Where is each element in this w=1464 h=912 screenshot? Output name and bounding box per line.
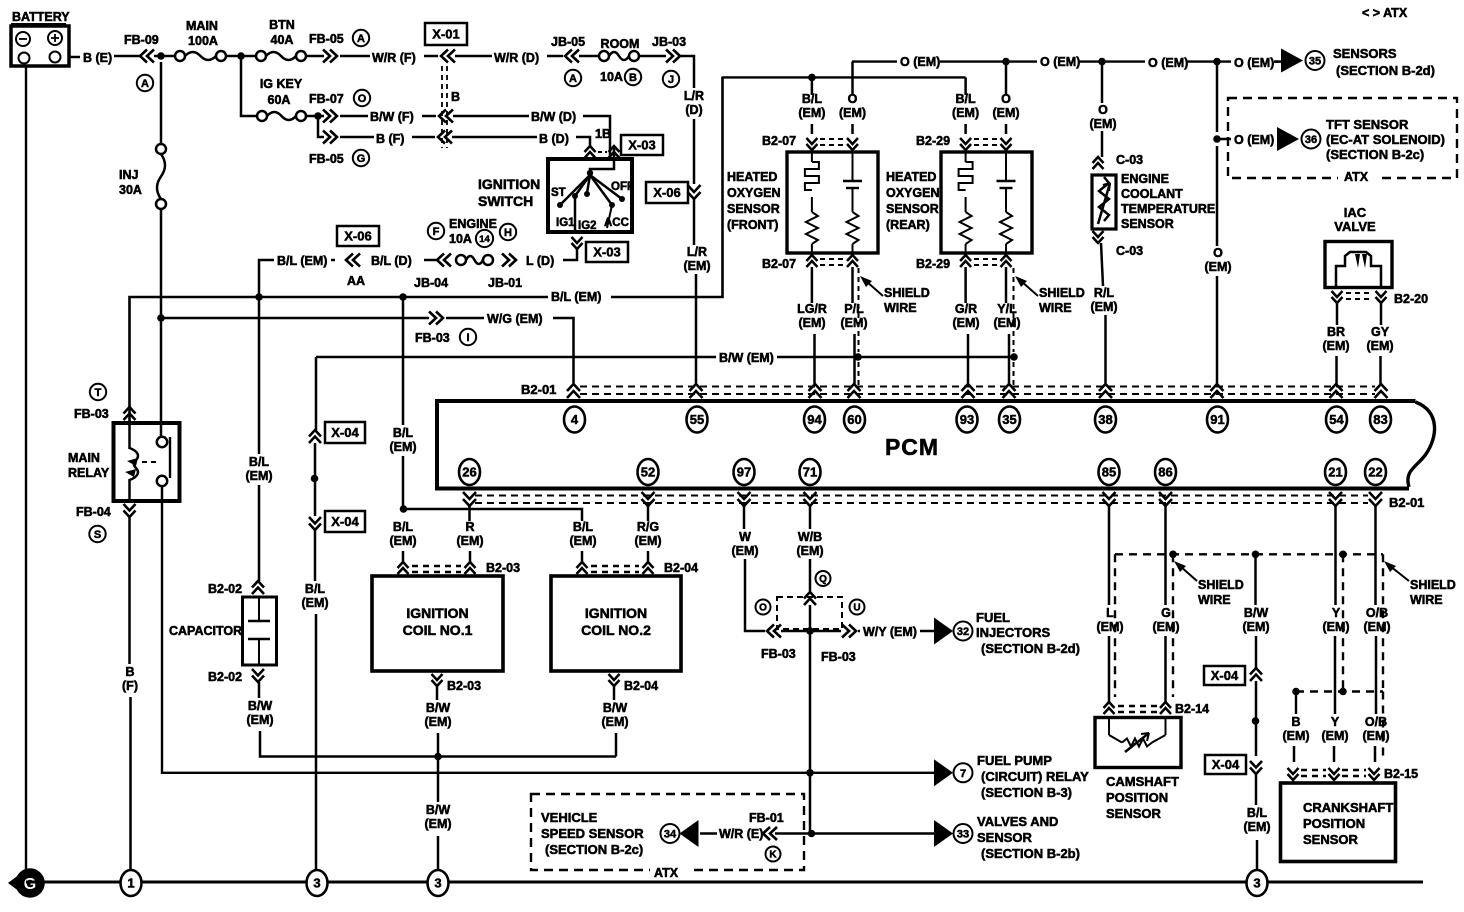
svg-text:CAPACITOR: CAPACITOR <box>169 624 242 638</box>
PCM pin 91 <box>1207 407 1228 433</box>
svg-text:B2-03: B2-03 <box>447 679 481 693</box>
svg-text:(EM): (EM) <box>601 715 628 729</box>
svg-text:(SECTION B-3): (SECTION B-3) <box>981 785 1072 800</box>
svg-text:FUEL PUMP: FUEL PUMP <box>977 753 1052 768</box>
svg-text:B/W (F): B/W (F) <box>370 110 414 124</box>
connector FB-03 right <box>821 625 856 665</box>
svg-text:35: 35 <box>1309 55 1321 67</box>
svg-text:(EM): (EM) <box>798 106 825 120</box>
IAC solenoid symbol <box>1336 252 1381 287</box>
svg-text:3: 3 <box>434 876 441 891</box>
svg-text:33: 33 <box>957 828 969 840</box>
wire to B(D) <box>452 136 537 139</box>
wire coil2 B/W <box>601 686 628 757</box>
junction battery feed <box>157 52 165 60</box>
svg-text:(EM): (EM) <box>798 316 825 330</box>
arrow 34 vss <box>661 820 699 847</box>
wire Y to crank <box>1333 746 1336 762</box>
svg-text:JB-05: JB-05 <box>551 35 585 49</box>
svg-text:B2-01: B2-01 <box>1389 495 1424 510</box>
PCM pin 38 <box>1095 407 1116 433</box>
HO2S front box <box>787 152 878 253</box>
wire O(EM) to ECT <box>1089 62 1116 157</box>
svg-text:(SECTION B-2c): (SECTION B-2c) <box>1326 147 1424 162</box>
svg-text:O: O <box>358 93 367 105</box>
svg-text:O (EM): O (EM) <box>1234 56 1274 70</box>
wire O(EM) to sensors arrow <box>1274 60 1281 63</box>
svg-text:SHIELD: SHIELD <box>884 286 930 300</box>
wire W/G to PCM pin 4 <box>553 318 574 384</box>
PCM pin 52 <box>638 459 659 485</box>
svg-text:U: U <box>853 603 860 614</box>
connector JB-05 <box>551 35 585 86</box>
wire BTN to FB-05 <box>306 55 324 58</box>
PCM bottom pin arrow <box>1329 492 1342 506</box>
label VEHICLE SPEED SENSOR <box>541 810 644 857</box>
PCM pin 54 <box>1326 407 1347 433</box>
fuse INJ 30A <box>119 144 166 209</box>
label IAC VALVE <box>1334 205 1376 234</box>
svg-text:W/R (F): W/R (F) <box>372 51 416 65</box>
svg-text:(EM): (EM) <box>952 316 979 330</box>
svg-text:SENSOR: SENSOR <box>977 830 1033 845</box>
svg-text:IG KEY: IG KEY <box>260 77 303 91</box>
svg-text:94: 94 <box>807 412 822 427</box>
svg-text:INJ: INJ <box>119 168 139 182</box>
wire W/R(D) to JB-05 <box>547 55 563 58</box>
svg-text:MAIN: MAIN <box>186 19 218 33</box>
svg-text:(SECTION B-2c): (SECTION B-2c) <box>545 842 643 857</box>
svg-text:O/B: O/B <box>1366 606 1388 620</box>
svg-text:71: 71 <box>803 465 817 480</box>
svg-text:O: O <box>1213 246 1223 260</box>
svg-text:(EM): (EM) <box>1204 260 1231 274</box>
PCM top pin arrow <box>848 384 861 398</box>
svg-text:IGNITION: IGNITION <box>585 605 647 621</box>
svg-text:(EM): (EM) <box>389 440 416 454</box>
arrow 33 valves <box>934 820 973 847</box>
wire B/L(D) to AA <box>424 259 437 262</box>
connector B2-20 <box>1332 291 1429 306</box>
svg-text:Y: Y <box>1332 606 1341 620</box>
wire to B/L label <box>1255 774 1258 805</box>
crank shield dashed <box>1296 554 1383 760</box>
svg-text:OXYGEN: OXYGEN <box>727 186 781 200</box>
svg-text:SWITCH: SWITCH <box>478 193 533 209</box>
dashed link X-01 <box>442 66 447 148</box>
svg-text:O: O <box>848 92 858 106</box>
svg-text:O (EM): O (EM) <box>1148 56 1188 70</box>
PCM bottom pin arrow <box>1159 492 1172 506</box>
svg-text:10A: 10A <box>600 70 623 84</box>
wire X-03 to L(D) corner <box>563 249 577 260</box>
wire coil B/L branch <box>403 509 582 521</box>
junction shield BW <box>1252 551 1260 559</box>
svg-text:G: G <box>24 876 36 893</box>
ground node 3b <box>428 870 449 896</box>
label B (F) bottom <box>122 665 138 693</box>
svg-text:RELAY: RELAY <box>68 466 110 480</box>
wire battery negative <box>25 66 27 870</box>
svg-text:HEATED: HEATED <box>727 170 777 184</box>
svg-text:B2-01: B2-01 <box>521 382 556 397</box>
svg-text:B2-04: B2-04 <box>624 679 658 693</box>
svg-text:(EM): (EM) <box>796 544 823 558</box>
main relay box <box>114 423 180 501</box>
HO2S rear sense element <box>997 152 1016 253</box>
connector FB-03 I <box>415 312 476 346</box>
circled U <box>850 600 865 615</box>
svg-text:J: J <box>668 74 674 86</box>
HO2S front heater element <box>805 152 819 253</box>
camshaft sensor element <box>1109 718 1166 753</box>
label SENSORS SECTION B-2d <box>1333 46 1435 78</box>
svg-text:(EM): (EM) <box>1282 729 1309 743</box>
svg-text:(EM): (EM) <box>634 534 661 548</box>
arrow 36 TFT <box>1277 127 1321 151</box>
PCM pin 86 <box>1155 459 1176 485</box>
svg-text:W/B: W/B <box>798 530 822 544</box>
PCM bottom pin arrow <box>642 492 655 506</box>
wire relay coil to B(F) <box>128 517 131 664</box>
PCM pin 93 <box>957 407 978 433</box>
svg-text:B/L (EM): B/L (EM) <box>551 290 601 304</box>
ignition coil no.2 box <box>551 576 681 671</box>
svg-text:B: B <box>1291 715 1300 729</box>
label B/L (EM) coil1 <box>389 520 416 548</box>
wire B/W(D) to ignition switch <box>583 116 610 160</box>
svg-text:X-06: X-06 <box>653 185 680 200</box>
svg-text:(EM): (EM) <box>731 544 758 558</box>
svg-text:TFT SENSOR: TFT SENSOR <box>1326 117 1409 132</box>
svg-text:O (EM): O (EM) <box>1234 133 1274 147</box>
wire B/L heater bus <box>722 76 966 78</box>
svg-text:HEATED: HEATED <box>886 170 936 184</box>
PCM top pin arrow <box>1003 384 1016 398</box>
junction shield2 to B/W <box>1010 353 1018 361</box>
wire X-04 riser <box>315 357 318 430</box>
HO2S front O wire <box>839 62 866 134</box>
wire B/L x403 down <box>402 297 405 425</box>
svg-text:SENSOR: SENSOR <box>1106 806 1162 821</box>
wire B/W row right segment <box>777 356 1014 359</box>
svg-text:X-04: X-04 <box>331 514 359 529</box>
relay contact <box>142 437 170 486</box>
PCM pin 83 <box>1370 407 1391 433</box>
wire to W/G label <box>446 317 484 320</box>
wire B/W pin into switch <box>613 146 616 166</box>
svg-text:POSITION: POSITION <box>1303 816 1365 831</box>
wire FB-09 to MAIN fuse <box>154 55 175 58</box>
svg-text:35: 35 <box>1002 412 1016 427</box>
connector FB-07 O <box>309 90 370 123</box>
capacitor box <box>243 597 277 665</box>
svg-text:Q: Q <box>819 574 827 585</box>
HO2S rear heater element <box>959 152 973 253</box>
PCM pin 55 <box>687 407 708 433</box>
svg-text:(EM): (EM) <box>683 259 710 273</box>
PCM pin 22 <box>1365 459 1386 485</box>
PCM top pin arrow <box>1375 384 1388 398</box>
wire B/L x403 to junction <box>402 456 405 509</box>
PCM top pin arrow <box>1099 384 1112 398</box>
svg-text:INJECTORS: INJECTORS <box>976 625 1050 640</box>
connector B2-29 bottom <box>916 255 1012 271</box>
svg-text:(EM): (EM) <box>1322 339 1349 353</box>
ECT sensor box <box>1092 175 1116 229</box>
svg-text:IAC: IAC <box>1344 205 1367 220</box>
svg-text:(CIRCUIT) RELAY: (CIRCUIT) RELAY <box>981 769 1089 784</box>
svg-text:(SECTION B-2b): (SECTION B-2b) <box>981 846 1080 861</box>
svg-text:(EM): (EM) <box>840 316 867 330</box>
wire MAIN to BTN <box>226 55 256 58</box>
connector B2-15 <box>1288 767 1419 781</box>
svg-text:22: 22 <box>1368 465 1382 480</box>
svg-text:B/L: B/L <box>305 582 326 596</box>
label Y (EM) crank <box>1321 715 1348 743</box>
PCM pin 26 <box>459 459 480 485</box>
arrow 35 sensors <box>1281 49 1325 73</box>
PCM pin 97 <box>734 459 755 485</box>
svg-text:POSITION: POSITION <box>1106 790 1168 805</box>
svg-text:O: O <box>1098 103 1108 117</box>
label FUEL PUMP CIRCUIT RELAY <box>977 753 1089 800</box>
svg-text:G/R: G/R <box>955 302 977 316</box>
junction O bus ECT <box>1098 58 1106 66</box>
HO2S front B/L wire <box>798 77 825 134</box>
svg-text:FB-07: FB-07 <box>309 92 344 106</box>
svg-text:26: 26 <box>462 465 476 480</box>
capacitor symbol <box>248 597 270 665</box>
svg-text:B2-03: B2-03 <box>486 561 520 575</box>
svg-text:52: 52 <box>641 465 655 480</box>
svg-text:W/R (D): W/R (D) <box>494 51 539 65</box>
svg-text:JB-04: JB-04 <box>414 276 448 290</box>
connector X-03 bottom <box>572 237 629 262</box>
svg-text:L: L <box>1106 606 1114 620</box>
svg-text:85: 85 <box>1102 465 1116 480</box>
svg-text:91: 91 <box>1210 412 1224 427</box>
connector FB-09 <box>124 33 159 63</box>
wire O(EM) to PCM 91 <box>1216 146 1219 246</box>
connector X-03 top pins <box>585 127 664 158</box>
svg-text:SENSOR: SENSOR <box>886 202 939 216</box>
svg-text:IG1: IG1 <box>556 217 575 229</box>
junction crank shield Y <box>1339 688 1347 696</box>
svg-text:B2-14: B2-14 <box>1175 702 1209 716</box>
svg-text:B/L: B/L <box>393 426 414 440</box>
connector FB-03 left <box>761 625 796 662</box>
connector X-01 row3 <box>438 131 452 144</box>
fuse IG KEY 60A <box>257 77 306 121</box>
wire between X-04s <box>314 443 317 516</box>
connector X-04 upper <box>309 422 365 443</box>
battery <box>11 10 70 66</box>
wire O to pin 91 lower <box>1216 276 1219 384</box>
svg-text:FB-05: FB-05 <box>309 152 344 166</box>
svg-text:B: B <box>125 665 134 679</box>
svg-text:(EM): (EM) <box>952 106 979 120</box>
wire B/W(EM) shield ground row <box>316 356 716 359</box>
svg-text:B (E): B (E) <box>83 51 112 65</box>
svg-text:B/W (EM): B/W (EM) <box>719 351 774 365</box>
connector B2-02 bottom <box>208 669 264 684</box>
wire G(EM) pin86 <box>1152 506 1179 702</box>
svg-text:X-04: X-04 <box>1211 668 1239 683</box>
ground symbol G <box>8 870 44 897</box>
svg-text:W/R (E): W/R (E) <box>719 827 763 841</box>
svg-text:VALVE: VALVE <box>1334 219 1376 234</box>
svg-text:SHIELD: SHIELD <box>1410 578 1456 592</box>
wire relay contact down <box>161 486 164 501</box>
box X-01 <box>425 23 467 45</box>
wire valves row <box>775 832 934 835</box>
svg-text:(EM): (EM) <box>1321 729 1348 743</box>
wire into coil2 left pin <box>581 551 584 562</box>
svg-text:60: 60 <box>847 412 861 427</box>
svg-text:(EM): (EM) <box>1366 339 1393 353</box>
svg-text:FB-03: FB-03 <box>821 650 856 664</box>
svg-text:B: B <box>629 72 637 84</box>
wire B(D) to switch connector <box>576 137 590 146</box>
ground node 3c <box>1247 870 1268 896</box>
connector B2-03 top <box>398 561 521 575</box>
PCM bottom pin arrow <box>463 492 476 506</box>
connector X-01 row1 <box>441 50 455 63</box>
label B/L (EM) x403 <box>389 426 416 454</box>
svg-text:AA: AA <box>347 274 365 288</box>
svg-text:BTN: BTN <box>269 18 295 32</box>
svg-text:K: K <box>769 850 777 861</box>
svg-text:W: W <box>739 530 751 544</box>
wire B(EM) crank <box>1282 692 1309 763</box>
svg-text:LG/R: LG/R <box>797 302 827 316</box>
svg-text:B/L: B/L <box>573 520 594 534</box>
svg-text:SPEED SENSOR: SPEED SENSOR <box>541 826 644 841</box>
wire B/L x259 down <box>258 297 261 454</box>
junction TFT tap <box>1213 135 1221 143</box>
wire W(EM) pin97 <box>731 506 765 631</box>
ground node 3a <box>307 870 328 896</box>
svg-text:14: 14 <box>479 234 490 245</box>
svg-text:B (D): B (D) <box>539 132 569 146</box>
connector FB-03 relay <box>74 407 136 421</box>
vehicle speed sensor dashed box <box>531 794 804 880</box>
svg-text:B/L: B/L <box>956 92 977 106</box>
junction shield G <box>1169 551 1177 559</box>
wire to FB-09 <box>114 55 142 58</box>
connector pin71 chevron <box>804 592 816 605</box>
wire to W/R(F) <box>340 55 370 58</box>
svg-text:(EM): (EM) <box>1362 729 1389 743</box>
svg-text:38: 38 <box>1098 412 1112 427</box>
svg-text:B/W: B/W <box>248 699 273 713</box>
wire coil1 B/W <box>424 686 451 756</box>
ATX dashed small box <box>777 597 842 629</box>
svg-text:IG2: IG2 <box>578 220 597 232</box>
svg-text:R/G: R/G <box>637 520 659 534</box>
svg-text:FB-03: FB-03 <box>415 331 450 345</box>
svg-text:ENGINE: ENGINE <box>449 217 497 231</box>
svg-text:CAMSHAFT: CAMSHAFT <box>1106 774 1179 789</box>
HO2S front sense element <box>843 152 862 253</box>
svg-text:VALVES AND: VALVES AND <box>977 814 1058 829</box>
wire R/G pin52 to coil2 <box>634 506 661 562</box>
svg-text:(EM): (EM) <box>1363 620 1390 634</box>
svg-text:C-03: C-03 <box>1116 244 1143 258</box>
svg-text:FB-09: FB-09 <box>124 33 159 47</box>
svg-text:B (F): B (F) <box>376 132 404 146</box>
label O (EM) x1217 <box>1204 246 1231 274</box>
HO2S rear box <box>941 152 1032 253</box>
svg-text:I: I <box>466 332 469 344</box>
PCM top pin arrow <box>809 384 822 398</box>
wire to ground 3c <box>1256 840 1259 869</box>
circled O <box>756 600 771 615</box>
box X-06 left <box>337 226 379 246</box>
wire W/G row left <box>161 317 429 320</box>
label HEATED OXYGEN SENSOR FRONT <box>727 170 781 232</box>
svg-text:(EM): (EM) <box>1096 620 1123 634</box>
PCM top pin arrow <box>1211 384 1224 398</box>
svg-text:7: 7 <box>960 768 966 780</box>
svg-text:(EM): (EM) <box>424 715 451 729</box>
wire injector junction down <box>809 631 812 834</box>
wire W/Y to arrow 32 <box>920 630 934 633</box>
svg-text:L/R: L/R <box>687 245 707 259</box>
svg-text:FB-03: FB-03 <box>74 407 109 421</box>
label TFT SENSOR EC-AT SOLENOID <box>1326 117 1445 162</box>
svg-text:CRANKSHAFT: CRANKSHAFT <box>1303 800 1393 815</box>
svg-text:21: 21 <box>1328 465 1342 480</box>
label IGNITION COIL NO.1 <box>403 605 473 638</box>
svg-text:B: B <box>451 90 460 104</box>
svg-text:FB-04: FB-04 <box>76 505 111 519</box>
svg-text:1B: 1B <box>595 127 611 141</box>
svg-text:X-04: X-04 <box>331 425 359 440</box>
ignition switch box <box>548 159 632 232</box>
wire battery B(E) <box>69 56 80 59</box>
svg-text:R/L: R/L <box>1094 286 1115 300</box>
svg-text:(SECTION B-2d): (SECTION B-2d) <box>981 641 1080 656</box>
PCM bottom pin arrow <box>804 492 817 506</box>
PCM top connector band B2-01 <box>521 382 1375 397</box>
label FUEL INJECTORS SECTION B-2d <box>976 610 1080 656</box>
connector JB-01 arrow <box>488 254 522 291</box>
svg-text:B/W: B/W <box>426 803 451 817</box>
svg-text:OXYGEN: OXYGEN <box>886 186 940 200</box>
junction crank shield B <box>1292 688 1300 696</box>
PCM top pin arrow <box>1330 384 1343 398</box>
svg-text:(EM): (EM) <box>1089 117 1116 131</box>
connector JB-04 arrow <box>414 254 451 291</box>
wire into coil1 left pin <box>402 551 405 562</box>
wire ROOM to JB-03 <box>639 55 666 58</box>
svg-text:COIL NO.2: COIL NO.2 <box>581 622 651 638</box>
junction coil ground <box>434 753 442 761</box>
ECT thermistor symbol <box>1098 177 1110 224</box>
connector B2-14 <box>1104 702 1210 716</box>
svg-text:(EM): (EM) <box>1322 620 1349 634</box>
wire L/R(D) down to X-06 <box>693 119 696 184</box>
svg-text:SENSORS: SENSORS <box>1333 46 1397 61</box>
connector C-03 top <box>1093 153 1144 169</box>
svg-text:(EM): (EM) <box>456 534 483 548</box>
svg-text:G: G <box>357 153 366 165</box>
svg-text:GY: GY <box>1371 325 1390 339</box>
connector B2-07 top <box>762 134 858 150</box>
wire ECT to R/L label <box>1101 243 1103 286</box>
